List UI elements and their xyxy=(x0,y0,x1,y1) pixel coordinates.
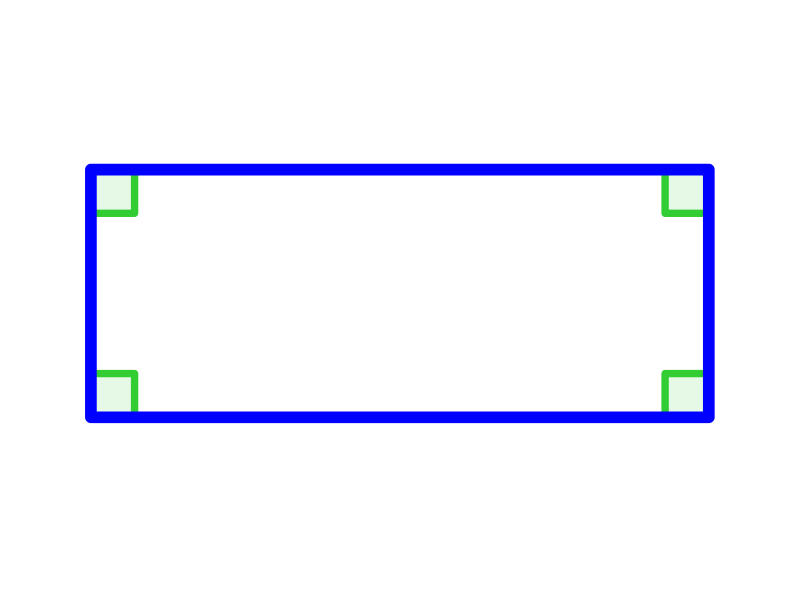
right-angle marker top-right xyxy=(665,170,709,214)
right-angle marker bottom-left xyxy=(91,374,135,418)
right-angle marker top-left xyxy=(91,170,135,214)
right-angle marker bottom-right xyxy=(665,374,709,418)
rectangle outline xyxy=(91,170,709,418)
